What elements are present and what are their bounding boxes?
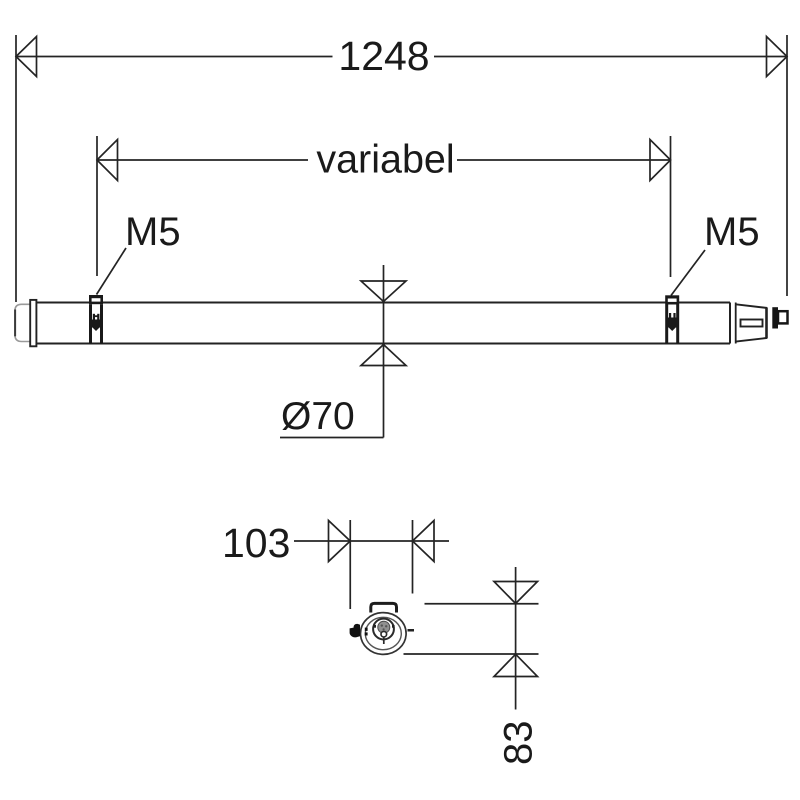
- arrowhead 103 right outside: [413, 521, 435, 562]
- arrowhead variabel left: [97, 140, 118, 181]
- extension line left (103): [349, 520, 351, 609]
- clamp left top tab: [89, 295, 103, 304]
- end view top tab: [371, 603, 397, 612]
- connector nub: [778, 311, 788, 323]
- end view wing screw: [350, 624, 360, 638]
- tube left rubber cap: [15, 304, 30, 341]
- dimension line 83 vertical: [515, 567, 517, 710]
- dimension line variabel left segment: [97, 159, 308, 161]
- clamp right band bars: [665, 305, 668, 344]
- extension line bottom (83): [404, 653, 539, 655]
- end view colon marks: [365, 628, 368, 631]
- end view outer circle: [361, 613, 407, 655]
- extension line right (variabel): [670, 136, 672, 277]
- extension line right (103): [412, 520, 414, 594]
- svg-text:1248: 1248: [338, 33, 429, 79]
- arrowhead variabel right: [650, 140, 671, 181]
- clamp right screw marks: [669, 313, 671, 319]
- svg-text:83: 83: [497, 721, 541, 766]
- leader line M5 right: [671, 250, 705, 296]
- svg-text:M5: M5: [704, 210, 760, 254]
- arrowhead diameter top: [361, 281, 406, 302]
- connector base block: [772, 307, 778, 328]
- tube right tapered cap: [736, 304, 767, 341]
- dimension line 1248 left segment: [16, 56, 333, 58]
- dimension line variabel right segment: [457, 159, 671, 161]
- arrowhead 83 bottom: [494, 654, 538, 676]
- extension line left (variabel): [96, 136, 98, 276]
- tube right ring line: [735, 303, 737, 344]
- end view middle ring: [373, 619, 394, 640]
- clamp right screw nut: [666, 318, 678, 328]
- clamp left screw nut: [90, 320, 102, 328]
- extension line right (1248): [786, 35, 788, 296]
- end view key circle: [381, 631, 387, 637]
- tube left cap edge: [14, 310, 16, 337]
- svg-text:variabel: variabel: [316, 138, 454, 182]
- tube bottom edge: [36, 342, 730, 344]
- diameter callout vertical line: [383, 265, 385, 438]
- arrowhead 1248 right: [767, 37, 788, 77]
- clamp left screw marks: [93, 314, 95, 320]
- svg-text:Ø70: Ø70: [281, 395, 355, 438]
- arrowhead 83 top: [494, 582, 538, 604]
- tube left flange ring: [30, 300, 36, 346]
- dimension line 103: [294, 540, 449, 542]
- end view center disc: [378, 621, 390, 633]
- clamp left band bars: [89, 304, 92, 343]
- arrowhead diameter bottom: [361, 345, 406, 366]
- dimension line 1248 right segment: [434, 56, 787, 58]
- extension line left (1248): [15, 35, 17, 302]
- tube right end line: [729, 303, 731, 344]
- extension line top (83): [425, 603, 539, 605]
- svg-text:M5: M5: [125, 210, 181, 254]
- end view key pin: [383, 637, 385, 644]
- arrowhead 103 left outside: [329, 521, 351, 562]
- end view right dash: [408, 629, 415, 632]
- tube top edge: [36, 301, 730, 303]
- clamp right top tab: [665, 295, 679, 304]
- arrowhead 1248 left: [16, 37, 37, 77]
- diameter callout horizontal line: [280, 437, 384, 439]
- cap slot: [741, 320, 763, 327]
- end view ring ticks: [373, 625, 376, 628]
- leader line M5 left: [97, 248, 127, 295]
- end view inner circle: [365, 617, 401, 649]
- svg-text:103: 103: [222, 520, 290, 566]
- cap end plate: [765, 308, 768, 338]
